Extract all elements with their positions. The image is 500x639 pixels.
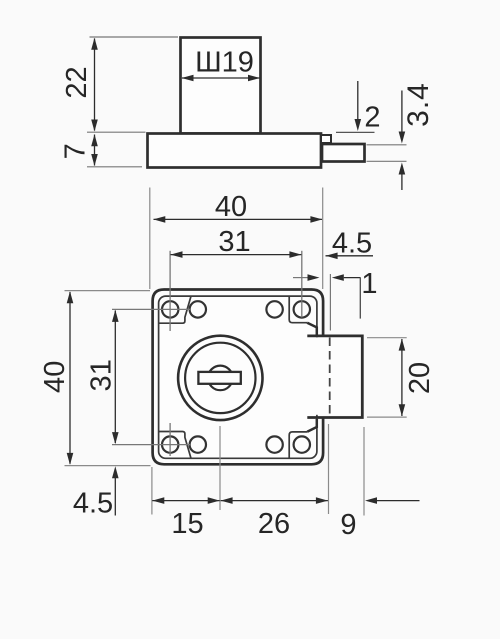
pocket top-left [159,297,191,324]
bolt (side) [322,144,365,162]
svg-text:31: 31 [86,359,118,391]
svg-text:9: 9 [340,509,356,541]
hidden edge dashed [329,338,331,417]
svg-text:26: 26 [258,508,290,540]
screw holes [162,301,310,453]
svg-text:4.5: 4.5 [332,228,372,260]
svg-text:2: 2 [364,102,380,134]
dim 1 [293,277,308,279]
svg-text:3.4: 3.4 [402,82,435,127]
bolt step [321,135,331,143]
notch top [307,323,317,336]
inner contour [159,296,317,458]
pocket bottom-right [289,432,307,458]
latch fill mask [309,337,362,415]
dim 22 [90,36,179,38]
dim 31 top [171,254,302,256]
dim 7 [87,166,142,168]
pocket top-right [289,297,307,323]
dim 4.5 top right [326,255,374,257]
plate outline [153,290,324,465]
svg-text:15: 15 [171,508,203,540]
dim 26 [221,500,328,502]
dim 3.4 [367,144,407,146]
svg-text:20: 20 [404,362,436,394]
lock cylinder tab [181,38,261,134]
dim 15 [152,500,219,502]
dim 20 [367,337,407,339]
centerlines [169,251,171,331]
notch bottom [307,419,317,432]
svg-text:1: 1 [361,268,377,300]
svg-text:Ш19: Ш19 [195,47,254,79]
dim 31 left [114,311,116,444]
dim 40 top [149,188,151,290]
svg-text:31: 31 [218,226,250,258]
dim 4.5 left [114,478,116,516]
latch outline [307,336,362,418]
dim 40 left [65,290,151,292]
svg-text:40: 40 [39,361,71,393]
svg-text:4.5: 4.5 [73,488,113,520]
bottom extension lines [151,467,153,515]
pocket bottom-left [159,432,191,459]
dim 9 [365,497,377,504]
lock body (side) [148,134,322,168]
dim 2 [357,81,359,120]
svg-text:40: 40 [215,191,247,223]
svg-text:22: 22 [61,66,93,98]
cylinder [178,336,262,420]
svg-text:7: 7 [60,143,92,159]
